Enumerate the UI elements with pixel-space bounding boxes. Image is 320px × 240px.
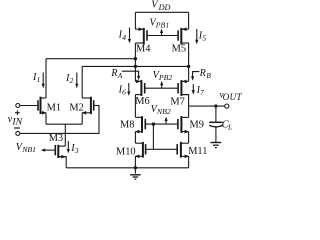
- current I7 label + arrow: [192, 84, 205, 97]
- wire rail B: [82, 65, 188, 67]
- wire M6 source: [134, 66, 136, 81]
- wire ground rail: [66, 167, 188, 169]
- node RA label + arrow: [110, 68, 140, 81]
- node minus sign: [14, 127, 20, 129]
- wire tail: [46, 123, 82, 125]
- wire VNB2 gates: [145, 123, 178, 125]
- wire M10 source to ground: [134, 156, 136, 168]
- svg-text:M6: M6: [135, 96, 149, 107]
- current I4 label + arrow: [118, 28, 132, 44]
- wire M8 source to M10 drain: [134, 132, 136, 144]
- wire M10 M11 gate link: [146, 148, 178, 150]
- port vIN+ terminal: [16, 104, 20, 108]
- node VPB2 label + arrow: [153, 70, 173, 88]
- transistor M7: [170, 80, 188, 108]
- svg-text:NB1: NB1: [21, 145, 36, 154]
- node VDD label: [151, 0, 170, 12]
- port vOUT terminal: [225, 104, 229, 108]
- transistor M11: [177, 142, 207, 158]
- wire rail A-B link: [134, 59, 136, 67]
- svg-text:M7: M7: [170, 97, 184, 108]
- junction rail B / M6 source: [134, 65, 137, 68]
- transistor M10: [116, 142, 146, 158]
- wire VPB2 gates: [145, 87, 178, 89]
- node plus sign: [15, 110, 20, 115]
- wire M4 source from VDD: [134, 12, 136, 29]
- svg-text:PB1: PB1: [155, 20, 170, 29]
- junction rail A / M4 drain: [134, 57, 137, 60]
- current I1 label + arrow: [32, 72, 45, 88]
- svg-text:5: 5: [202, 33, 206, 42]
- wire M4 drain to rail A: [134, 43, 136, 59]
- wire output: [189, 105, 225, 107]
- transistor M3: [49, 133, 66, 158]
- svg-text:B: B: [206, 71, 211, 80]
- svg-text:M2: M2: [69, 103, 83, 114]
- transistor M8: [120, 116, 145, 133]
- ground symbol CL: [210, 143, 221, 148]
- svg-text:IN: IN: [11, 116, 22, 127]
- svg-text:6: 6: [122, 88, 126, 97]
- capacitor CL: [209, 106, 232, 142]
- svg-text:A: A: [117, 71, 123, 80]
- svg-text:M10: M10: [116, 146, 136, 157]
- wire tail M1 source: [45, 113, 47, 124]
- svg-text:NB2: NB2: [156, 107, 171, 116]
- transistor M9: [178, 116, 204, 133]
- wire VPB1 gates: [147, 35, 178, 37]
- ground symbol main: [130, 168, 140, 179]
- svg-text:PB2: PB2: [158, 73, 173, 82]
- wire M11 source to ground rail: [188, 156, 190, 168]
- svg-text:1: 1: [37, 75, 41, 84]
- node vIN label: [8, 114, 23, 127]
- port vIN- terminal: [16, 131, 20, 135]
- junction output / CL tap: [214, 104, 217, 107]
- wire tail M2 source: [81, 113, 83, 124]
- svg-text:M4: M4: [136, 43, 151, 54]
- wire rail A to M1 drain: [45, 59, 47, 98]
- svg-text:M5: M5: [172, 44, 186, 55]
- svg-text:M3: M3: [49, 133, 63, 144]
- svg-text:M8: M8: [120, 119, 134, 130]
- wire M6 drain to M8 drain: [134, 95, 136, 118]
- svg-text:3: 3: [74, 146, 79, 155]
- transistor M4: [135, 27, 151, 54]
- svg-text:M1: M1: [47, 103, 61, 114]
- svg-text:DD: DD: [158, 3, 171, 12]
- svg-text:2: 2: [70, 76, 74, 85]
- transistor M2: [69, 97, 93, 115]
- wire M5 source from VDD: [188, 12, 190, 29]
- node VNB1 label + arrow: [16, 142, 56, 154]
- wire vIN+ to M1 gate: [20, 105, 38, 107]
- svg-text:L: L: [227, 122, 232, 131]
- wire vIN- to M2 gate: [20, 106, 99, 134]
- current I3 label + arrow: [67, 141, 79, 155]
- wire rail A: [46, 58, 135, 60]
- wire rail B to M2 drain: [81, 66, 83, 98]
- wire M9 source to M11 drain: [188, 132, 190, 144]
- svg-text:M9: M9: [190, 120, 204, 131]
- svg-text:4: 4: [122, 33, 126, 42]
- wire tail to M3 drain: [64, 124, 66, 146]
- wire VNB2 to M10 M11 gates: [152, 124, 154, 149]
- wire M5 drain: [181, 43, 188, 66]
- wire VDD rail: [135, 11, 188, 13]
- wire M3 source to ground rail: [58, 157, 66, 168]
- junction ground rail / M10 source: [134, 166, 137, 169]
- node VPB1 label + arrow: [150, 17, 170, 35]
- transistor M6: [135, 80, 149, 107]
- current I5 label + arrow: [195, 29, 206, 44]
- svg-text:OUT: OUT: [223, 92, 243, 102]
- node RB label + arrow: [191, 68, 211, 81]
- current I2 label + arrow: [65, 73, 78, 89]
- node VNB2 label + arrow: [151, 104, 171, 124]
- wire M7 drain to out: [181, 95, 188, 118]
- wire M7 source: [188, 66, 190, 81]
- svg-text:M11: M11: [188, 146, 207, 157]
- junction rail B right / M5 drain: [187, 65, 190, 68]
- current I6 label + arrow: [118, 83, 131, 97]
- transistor M5: [172, 27, 189, 54]
- transistor M1: [38, 97, 61, 115]
- node vOUT label: [220, 91, 243, 102]
- junction VNB2 / lower gates: [152, 122, 155, 125]
